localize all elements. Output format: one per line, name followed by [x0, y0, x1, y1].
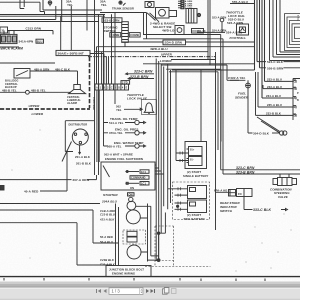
- wire drop x85.7: [86, 0, 88, 31]
- scan specks: [12, 130, 292, 272]
- wire battery two feeds: [175, 189, 188, 210]
- wire C313 ORN line: [8, 31, 54, 35]
- top right corner verticals: [270, 0, 301, 61]
- wire diagonals to 4wd box: [147, 13, 159, 22]
- wire fan A to fuel sender: [161, 65, 245, 80]
- wire staircase top-left: [40, 2, 45, 15]
- wire 233-A BLU pin B: [263, 85, 293, 89]
- wire shutdown contact row1: [125, 171, 139, 173]
- bus B5 y51.7: [95, 51, 208, 53]
- connector strip A1B2C3: [95, 84, 129, 90]
- dashed trans boundary horizontals: [145, 226, 211, 267]
- bus B1 y34.5 to 323-C BRN: [143, 35, 300, 170]
- node boxed 1C1 row1: [140, 170, 149, 174]
- fuel sender circled plus: [246, 83, 251, 88]
- wire vertical x103.5 gauge feed: [103, 15, 105, 147]
- wire top-left bus y2.2: [0, 1, 40, 3]
- battery single outer box: [185, 142, 207, 169]
- wire starter right verticals: [148, 204, 151, 262]
- node junction dots bottom center: [157, 232, 159, 234]
- wire long vertical x215.5: [215, 52, 217, 230]
- wire 233-B BLK pin D: [256, 72, 294, 115]
- svg-text:1 / 3: 1 / 3: [112, 288, 121, 293]
- gauge eng water temp circle: [104, 145, 135, 147]
- wire bus y21.5: [0, 21, 99, 23]
- wire vertical x24.2: [23, 0, 25, 7]
- UI toolbar background: [0, 288, 300, 300]
- node circle stem x222: [220, 18, 224, 22]
- UI scrollbar track: [0, 282, 300, 287]
- connector right edge: [293, 79, 300, 121]
- ruler tick marks: [4, 278, 265, 281]
- node boxed label BLU: [36, 39, 44, 43]
- battery two box lower: [188, 200, 207, 213]
- node boxed 523-B GRN: [102, 18, 122, 23]
- UI pages icon: [163, 288, 169, 295]
- divider dash-dot center y56.6: [88, 56, 216, 58]
- node circled plus x199: [197, 13, 200, 16]
- node boxed COMB-1D: [192, 29, 204, 34]
- wire INT box output: [90, 54, 104, 85]
- wire horn feed: [77, 71, 79, 85]
- wire fan C: [169, 72, 218, 150]
- wire 323-B BRN center lead: [128, 77, 154, 79]
- select switch 2-4wd box: [156, 8, 170, 19]
- wire 304-D BLK line: [272, 132, 280, 134]
- starter top small circle: [129, 197, 133, 201]
- wire fan B to rear steer: [166, 69, 228, 192]
- node boxed COMB left: [110, 33, 121, 37]
- wire fan y70: [172, 69, 255, 71]
- wire drops to INT box: [56, 0, 62, 22]
- wire 526-B BRN line: [260, 67, 301, 69]
- valve combination steering: [273, 179, 278, 185]
- wire strip to shutdown box feeds: [97, 90, 99, 162]
- starter relay dashed box: [123, 230, 146, 244]
- wire 40-A RED line: [40, 150, 67, 191]
- top right nested C brackets: [285, 14, 301, 51]
- bus B2 y38.8 to 323-B BRN: [143, 39, 300, 174]
- wire bus y10 top-left: [43, 0, 102, 10]
- wire long bus y203.5: [0, 203, 100, 205]
- footpall box: [237, 24, 249, 35]
- wire 502 YEL to bell: [124, 108, 142, 110]
- wire label stack leads: [178, 1, 181, 8]
- UI first page button: [96, 289, 107, 293]
- wire starter stubs right: [136, 206, 151, 252]
- wire vertical pair x208 x210: [208, 0, 210, 65]
- wire shutdown box to bundle stubs: [155, 165, 164, 174]
- wire relay drops: [4, 31, 14, 35]
- wire C304 A YEL underline: [230, 79, 239, 81]
- divider dashed upper-lower left y109: [0, 108, 90, 110]
- trunk sensor circled plus: [119, 1, 122, 4]
- bus B7 y63.8: [143, 63, 255, 65]
- battery two dashed box: [173, 182, 210, 220]
- relay back-alarm cluster: [1, 34, 18, 43]
- wire rear steer to 333-C BLK: [244, 197, 288, 211]
- wire 207-A ORN line: [0, 175, 97, 180]
- wire vertical pair C304 WHT x98.5: [98, 15, 100, 176]
- UI next page button: [146, 289, 155, 293]
- connector slotted block: [186, 9, 197, 24]
- wire left edge dark mark: [0, 186, 4, 191]
- gauge eng oil pres circle: [104, 132, 135, 134]
- node boxed ON starter: [128, 193, 135, 196]
- node small box above strip: [121, 81, 130, 85]
- wire bottom center zigzag: [148, 213, 166, 261]
- starter solenoid circle: [126, 210, 140, 224]
- wire left line y63: [0, 62, 55, 64]
- distributor circle: [72, 129, 88, 145]
- battery two box upper: [188, 186, 207, 199]
- relay engine fuel shutdown box: [101, 162, 155, 190]
- buzzer bell symbol: [144, 103, 154, 113]
- node battery post circle top-left: [48, 1, 52, 5]
- wire distributor diagonal lead: [62, 142, 72, 162]
- starter motor circle: [127, 245, 141, 259]
- wire B1 B2 source drops: [144, 13, 147, 39]
- throttle lock valve box: [142, 100, 157, 115]
- gauge trans oil temp circle: [104, 122, 135, 124]
- wire bus y12.5 top-center: [100, 12, 147, 14]
- node double circle ground: [280, 131, 284, 135]
- wire 235-A BLU pin E: [258, 72, 293, 107]
- wire vertical x20: [20, 0, 24, 9]
- wire battery single feed x201: [200, 70, 202, 142]
- right bundle verticals: [255, 0, 265, 98]
- node boxed COMB right: [129, 33, 140, 37]
- wire drop x60.7 to INT box: [60, 16, 62, 50]
- node 31 box left edge: [0, 27, 8, 33]
- wire drop x70.4 to INT box: [70, 6, 72, 51]
- bus B3 y42: [122, 41, 255, 43]
- wire comb drop: [124, 42, 126, 46]
- wire y47 left: [0, 46, 19, 48]
- divider dashed vertical x89.5: [89, 57, 91, 108]
- wire main bus y14.5: [0, 14, 105, 16]
- rear steer indicator switch: [229, 190, 236, 197]
- bus B4 y46.7: [97, 46, 255, 48]
- wire 234-A BLU pin A: [262, 97, 293, 99]
- top center box with circle small: [145, 2, 154, 8]
- junction block bolt box: [106, 266, 151, 277]
- center bundle verticals: [156, 59, 164, 262]
- UI extra icon faint: [172, 289, 177, 294]
- UI last page button: [151, 289, 154, 293]
- wire main bus y16.2: [0, 15, 105, 17]
- wire distributor down lead: [79, 145, 81, 154]
- wire bus y19.5: [0, 19, 56, 21]
- node 4wd-lo box: [175, 26, 184, 35]
- node boxed 1C1 row2: [140, 182, 149, 186]
- resistor INT fuse box 30A/E: [56, 50, 90, 55]
- node boxed COMMAND: [130, 176, 149, 180]
- wire starter left verticals: [116, 204, 119, 266]
- alarm horn trapezoid: [74, 85, 81, 90]
- wire battery single feeds left: [176, 70, 189, 161]
- distributor enclosure box: [65, 121, 94, 152]
- wire 488-B YEL line y92.3: [0, 91, 71, 93]
- node splice circle 488: [26, 90, 30, 94]
- wire alarm output y71: [30, 70, 78, 72]
- wire 524-C BLK line: [257, 61, 300, 63]
- wire bundle drops into strip: [97, 13, 116, 105]
- page bottom edge line: [0, 276, 300, 278]
- wire shutdown contact row2: [125, 182, 139, 184]
- node boxed SD4-D GRN on B3: [163, 40, 186, 45]
- node junction dot battery two: [177, 205, 179, 207]
- UI prev page button: [104, 289, 107, 293]
- connector hatched comb: [122, 22, 129, 43]
- wire 323-C BRN center lead: [126, 73, 154, 75]
- wire bus y210 with corner: [0, 210, 118, 243]
- UI page input box: [109, 288, 143, 295]
- wire y32.4 segment: [197, 31, 225, 33]
- wire vertical pair C304 WHT x94.5: [94, 0, 96, 175]
- wire 555-A BLU line: [230, 3, 255, 5]
- wire 233-A BLU pin C: [265, 80, 294, 82]
- dashed trans boundary verticals: [155, 226, 174, 267]
- wire diagonals to ground point: [257, 117, 280, 133]
- wire fan y59.5: [171, 59, 216, 61]
- wire bus y222.7 with corner: [0, 223, 112, 265]
- wire fuel sender down to 304-D BLK: [248, 88, 253, 133]
- switch bulldog alarm box: [14, 69, 30, 79]
